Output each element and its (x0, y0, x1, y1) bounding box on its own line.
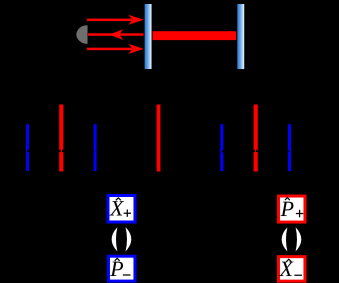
box P+ (red) (278, 196, 305, 222)
intracavity field (thick red bar) (152, 31, 237, 40)
drive tone line (red, right group) (254, 105, 258, 172)
svg-text:X: X (278, 256, 294, 281)
carrier line (red, center, drawn over axis) (157, 104, 161, 171)
sideband line (blue, far left) (26, 124, 29, 171)
axis dash over left-group right blue line (93, 150, 95, 152)
axis dash over far-right blue line (287, 150, 289, 152)
sideband line (blue, left group right) (94, 124, 97, 171)
commutator parens (right) (282, 227, 302, 251)
axis dash over far-left blue line (27, 150, 29, 152)
reflected arrow (middle, left-pointing) (88, 29, 144, 40)
commutator parens (left) (112, 227, 132, 251)
svg-text:P: P (280, 196, 294, 221)
drive tone line (red, left group) (59, 104, 63, 171)
axis dash over left red line (two dash ends, red pinch between) (59, 150, 61, 152)
box X+ (blue) (108, 195, 135, 222)
sideband line (blue, right group left) (220, 124, 223, 171)
sideband line (blue, far right) (288, 124, 291, 171)
axis dash over right-group left blue line (222, 150, 224, 152)
axis dash over right red line (two dash ends, red pinch between) (253, 150, 255, 152)
box X- (red) (278, 256, 305, 281)
laser source (gray half-disc) (76, 25, 87, 44)
right cavity mirror (236, 3, 245, 70)
input arrow (bottom, right-pointing) (87, 44, 144, 54)
left cavity mirror (144, 3, 153, 70)
input arrow (top, right-pointing) (87, 15, 144, 25)
box P- (blue) (108, 256, 135, 281)
